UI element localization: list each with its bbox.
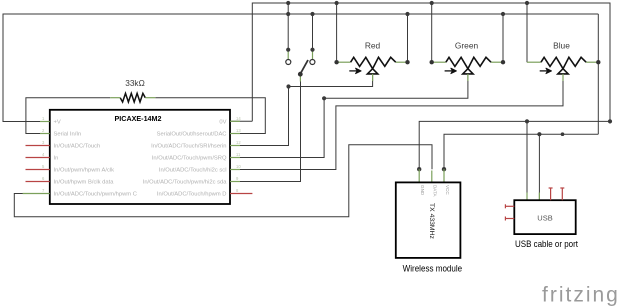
svg-text:33kΩ: 33kΩ — [125, 78, 145, 88]
junction dot pin11 bend — [322, 96, 326, 100]
pot blue right terminal dot — [596, 60, 600, 64]
svg-text:14: 14 — [236, 116, 241, 121]
pot red right terminal dot — [405, 60, 409, 64]
wire blue pot left terminal drop — [526, 3, 528, 62]
svg-text:In/Out/ADC/Touch/hpwm D: In/Out/ADC/Touch/hpwm D — [157, 192, 227, 198]
IC U1 PICAXE-14M2 body — [50, 110, 230, 204]
svg-text:10: 10 — [236, 164, 241, 169]
svg-text:VCC: VCC — [445, 185, 450, 195]
pot green left terminal dot — [430, 60, 434, 64]
svg-text:GND: GND — [420, 185, 425, 196]
pot blue wiper leg green — [562, 74, 564, 81]
svg-text:In/Out/ADC/Touch: In/Out/ADC/Touch — [54, 144, 101, 150]
USB red stub left 2 — [505, 217, 514, 221]
wire pin9 to switch pivot — [230, 76, 301, 182]
svg-text:12: 12 — [236, 140, 241, 145]
wire switch contact left drop — [287, 3, 289, 50]
switch S1 lever — [301, 60, 308, 73]
pot blue left leg green — [527, 61, 541, 63]
TX module pin legs green — [419, 169, 444, 182]
USB red stub top 1 — [549, 188, 553, 200]
pot red wiper arrow — [349, 70, 357, 72]
svg-text:Serial In/In: Serial In/In — [54, 132, 82, 138]
svg-text:In/Out/ADC/Touch/SRI/hserin: In/Out/ADC/Touch/SRI/hserin — [151, 144, 226, 150]
svg-text:In/Out/ADC/Touch/pwm/hpwm C: In/Out/ADC/Touch/pwm/hpwm C — [54, 192, 137, 198]
wire pin12 riser to junction — [230, 87, 289, 146]
wire switch contact right drop — [312, 14, 314, 50]
potentiometer RED — [334, 40, 409, 81]
pot green right leg green — [491, 61, 503, 63]
switch S1 contact legs green — [288, 50, 312, 82]
svg-text:In: In — [54, 156, 59, 162]
pot blue zigzag — [541, 57, 586, 68]
wire USB pin1 riser — [526, 121, 528, 200]
wire green pot left terminal drop — [431, 3, 433, 62]
potentiometer BLUE — [527, 40, 601, 81]
pot red wiper leg green — [372, 74, 374, 81]
pot red wiper triangle — [367, 69, 377, 74]
wire red pot right terminal drop — [407, 14, 409, 62]
svg-text:TX 433MHz: TX 433MHz — [428, 203, 435, 239]
resistor R1 leg green right — [145, 97, 155, 99]
IC right red stub pin8 — [230, 193, 252, 195]
wire junction to red wiper — [289, 74, 373, 87]
wire GND mid rail (line 1) — [419, 121, 610, 169]
junction dot GND rail right corner — [608, 119, 612, 123]
switch S1 left contact — [286, 60, 291, 65]
IC left red stub pin5 — [26, 169, 50, 171]
wire junction to green wiper — [324, 74, 468, 98]
svg-text:In/Out/ADC/Touch/pwm/hi2c sda: In/Out/ADC/Touch/pwm/hi2c sda — [143, 180, 228, 186]
IC left red stub pin6 — [26, 181, 50, 183]
resistor R1 leg green left — [110, 97, 120, 99]
pot blue wiper arrow — [540, 70, 548, 72]
wire pin11 riser to junction — [230, 98, 324, 157]
IC pin numbers faint — [42, 116, 241, 193]
TX module junction dot VCC — [442, 167, 446, 171]
switch S1 pivot — [298, 72, 303, 77]
wire pin10 to blue wiper — [230, 74, 563, 170]
USB red stub top 2 — [560, 188, 564, 200]
pot green right terminal dot — [501, 60, 505, 64]
IC left red stub pin4 — [26, 157, 50, 159]
pot green zigzag — [446, 57, 491, 68]
wire line 2 TX VCC to blue riser — [444, 134, 598, 169]
wire top +V rail (line B) — [3, 14, 598, 122]
IC right pin labels — [143, 120, 228, 198]
TX module junction dot GND — [417, 167, 421, 171]
svg-text:SerialOut/Out/hserout/DAC: SerialOut/Out/hserout/DAC — [157, 132, 227, 138]
USB part body — [514, 200, 575, 234]
svg-text:In/Out/ADC/Touch/hi2c scl: In/Out/ADC/Touch/hi2c scl — [159, 168, 227, 174]
pot green wiper triangle — [463, 69, 473, 74]
TX module U2 body — [396, 182, 461, 258]
svg-text:+V: +V — [54, 120, 61, 126]
svg-text:DATA: DATA — [433, 185, 438, 198]
junction dot USB pin1 tee — [525, 119, 529, 123]
pot green wiper arrow — [445, 70, 453, 72]
svg-text:fritzing: fritzing — [542, 284, 620, 307]
junction dot line2 join — [561, 132, 565, 136]
IC right pin legs green — [230, 121, 240, 181]
wire top 0V rail (line A) — [252, 3, 610, 121]
wire red pot left terminal drop — [336, 3, 338, 62]
svg-text:Green: Green — [455, 40, 479, 50]
pot red right leg green — [396, 61, 408, 63]
pot blue wiper triangle — [558, 69, 568, 74]
pot red left terminal dot — [334, 60, 338, 64]
svg-text:USB cable or port: USB cable or port — [515, 239, 578, 249]
svg-text:11: 11 — [236, 152, 241, 157]
pot green wiper leg green — [467, 74, 469, 81]
junction dot USB pin2 tee — [537, 132, 541, 136]
svg-text:In/Out/pwm/hpwm A/clk: In/Out/pwm/hpwm A/clk — [54, 168, 115, 174]
pot green left leg green — [432, 61, 446, 63]
switch S1 right contact — [310, 60, 315, 65]
wire resistor right lead to pin13 — [155, 98, 265, 134]
IC left pin labels — [54, 120, 137, 198]
TX module pin labels — [420, 185, 450, 198]
wire green pot right terminal drop — [502, 14, 504, 62]
svg-text:Blue: Blue — [553, 40, 570, 50]
wire pin7 to TX DATA — [14, 145, 432, 217]
junction dots on top rails — [335, 1, 339, 5]
svg-text:Red: Red — [365, 40, 381, 50]
svg-text:USB: USB — [537, 214, 552, 223]
svg-text:13: 13 — [236, 128, 241, 133]
wire pin14 stub — [230, 120, 252, 122]
wire pin2 to resistor left lead — [26, 98, 110, 134]
resistor R1 33k zigzag — [120, 93, 145, 102]
svg-text:0V: 0V — [219, 120, 226, 126]
pot blue right leg green — [586, 61, 598, 63]
junction dot switch left top — [286, 48, 290, 52]
pot red zigzag — [351, 57, 396, 68]
IC left red stub pin3 — [26, 145, 50, 147]
svg-text:Wireless module: Wireless module — [403, 264, 463, 274]
svg-text:PICAXE-14M2: PICAXE-14M2 — [115, 114, 162, 123]
junction dot pin12 bend — [286, 84, 290, 88]
junction dot switch right top — [310, 48, 314, 52]
potentiometer GREEN — [430, 40, 506, 81]
IC left pin legs green — [23, 122, 50, 194]
USB part pin legs green — [527, 193, 539, 201]
svg-text:In/Out/ADC/Touch/pwm/SRQ: In/Out/ADC/Touch/pwm/SRQ — [152, 156, 227, 162]
wire USB pin2 riser — [538, 134, 540, 200]
svg-text:In/Out/hpwm B/clk data: In/Out/hpwm B/clk data — [54, 180, 115, 186]
pot red left leg green — [337, 61, 351, 63]
wire blue pot right terminal riser through to line2 — [597, 14, 599, 134]
USB red stub left 1 — [505, 204, 514, 208]
